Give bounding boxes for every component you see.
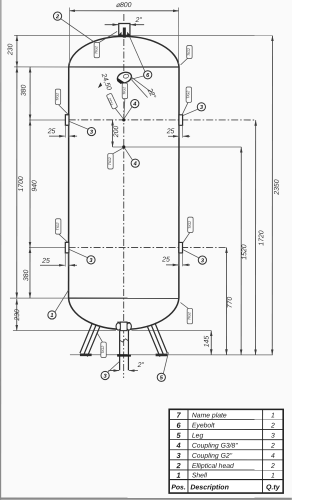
svg-text:25: 25 bbox=[41, 258, 50, 265]
angle lines 22deg bbox=[131, 80, 147, 98]
svg-text:Coupling G3/8": Coupling G3/8" bbox=[192, 443, 238, 450]
svg-text:25: 25 bbox=[161, 257, 170, 264]
bottom nozzle coupling at head apex bbox=[116, 322, 131, 331]
weld tag bottom-left leg bbox=[97, 333, 106, 357]
svg-text:2": 2" bbox=[137, 362, 145, 369]
coupling stub upper-right bbox=[179, 115, 183, 126]
balloon 3 lower-left coupling bbox=[69, 249, 95, 264]
svg-text:4: 4 bbox=[176, 441, 181, 450]
pipe break squiggle bbox=[120, 339, 129, 342]
svg-text:Coupling G2": Coupling G2" bbox=[192, 453, 233, 460]
shell left wall bbox=[68, 67, 70, 298]
dim 1520 bbox=[240, 147, 242, 355]
svg-text:230: 230 bbox=[14, 309, 21, 322]
balloon 4 lower junction bbox=[125, 148, 140, 167]
extension line bottom reference (y=354.8) bbox=[70, 354, 273, 356]
balloon 6 eyebolt bbox=[144, 71, 152, 79]
weld tag lower-right coupling bbox=[183, 217, 193, 243]
svg-text:⌀800: ⌀800 bbox=[116, 2, 132, 9]
dim chain A: 230 top bbox=[16, 35, 18, 66]
dim chain A: 1700 bbox=[16, 67, 18, 298]
dim 2350 bbox=[271, 36, 273, 355]
table header row bbox=[171, 483, 280, 491]
table row 2 elliptical head bbox=[176, 461, 275, 470]
weld tag above upper junction (centerline) bbox=[122, 83, 127, 117]
svg-text:940: 940 bbox=[32, 180, 39, 192]
table row 4 coupling G3/8 bbox=[176, 441, 275, 450]
eyebolt leader to balloon 6 bbox=[132, 76, 145, 79]
svg-text:TIG2: TIG2 bbox=[187, 312, 191, 320]
svg-text:2: 2 bbox=[270, 443, 275, 450]
svg-text:Q.ty: Q.ty bbox=[266, 484, 281, 491]
dim chain A: 230 bottom bbox=[16, 299, 18, 331]
svg-text:Eyebolt: Eyebolt bbox=[192, 422, 216, 429]
dim chain B: 380 top bbox=[29, 67, 31, 120]
svg-text:TIG2: TIG2 bbox=[101, 346, 105, 354]
dim chain B: 380 bottom bbox=[29, 247, 31, 298]
svg-text:TIG2: TIG2 bbox=[56, 222, 60, 230]
svg-text:1700: 1700 bbox=[18, 176, 25, 192]
svg-text:200: 200 bbox=[113, 126, 120, 139]
svg-text:1: 1 bbox=[271, 412, 275, 419]
elliptical head top bbox=[69, 36, 179, 67]
centerline horizontal dash-dot lower bbox=[69, 246, 227, 248]
balloon 2 top head bbox=[53, 12, 93, 42]
svg-text:2: 2 bbox=[270, 463, 275, 470]
dim 25 lower-right bbox=[161, 253, 190, 266]
svg-text:2": 2" bbox=[134, 17, 142, 24]
weld seam bottom bbox=[69, 297, 179, 299]
weld tag upper-left coupling bbox=[55, 89, 68, 114]
leg left foot bbox=[80, 354, 92, 357]
centerline vertical dash-dot bbox=[123, 14, 125, 378]
svg-text:24,50: 24,50 bbox=[99, 72, 112, 92]
leader top nozzle to balloon 6 bbox=[130, 37, 145, 72]
weld tag near top nozzle bbox=[94, 31, 117, 57]
extension line upper nozzle level left solid bbox=[29, 119, 65, 121]
node junction upper on centerline bbox=[122, 118, 125, 121]
svg-text:TIG2: TIG2 bbox=[55, 93, 59, 101]
dim 25 lower-left bbox=[40, 253, 77, 267]
dim 200 mid bbox=[112, 120, 114, 147]
centerline horizontal dash-dot upper bbox=[69, 119, 256, 121]
svg-text:1520: 1520 bbox=[241, 244, 248, 260]
svg-text:Elliptical head: Elliptical head bbox=[192, 463, 234, 470]
dim 1720 bbox=[255, 120, 257, 355]
leg right foot bbox=[156, 354, 168, 357]
extension line mid (y=147) to 1520 dim bbox=[113, 146, 242, 148]
dim 145 right bbox=[210, 331, 212, 355]
weld tag below lower junction bbox=[108, 148, 123, 169]
extension line bottom head apex left (y=330) bbox=[13, 330, 116, 332]
balloon 3 bottom coupling bbox=[101, 361, 119, 379]
dim 25 upper-right bbox=[166, 125, 190, 137]
leg right bbox=[148, 323, 168, 357]
table row 5 leg bbox=[177, 431, 275, 440]
coupling stub lower-left bbox=[65, 242, 69, 253]
svg-text:380: 380 bbox=[21, 85, 28, 97]
svg-text:Name plate: Name plate bbox=[192, 412, 227, 419]
coupling stub upper-left bbox=[65, 115, 69, 126]
top nozzle coupling 2in bbox=[119, 23, 130, 35]
extension line top seam (y=67) bbox=[14, 66, 69, 68]
table row 6 eyebolt bbox=[177, 421, 275, 430]
svg-text:TIG2: TIG2 bbox=[122, 87, 126, 95]
small arrow of 24,50 bbox=[98, 82, 102, 88]
balloon 3 lower-right coupling bbox=[183, 250, 207, 265]
page bottom edge bbox=[0, 498, 292, 500]
bottom pipe bbox=[119, 330, 121, 370]
page left edge bbox=[0, 0, 2, 500]
svg-text:230: 230 bbox=[7, 44, 14, 57]
dim 770 bbox=[225, 248, 227, 355]
svg-text:3: 3 bbox=[271, 433, 275, 440]
svg-text:4: 4 bbox=[271, 453, 275, 460]
weld tag lower-left coupling bbox=[56, 219, 69, 243]
eyebolt bbox=[116, 71, 133, 85]
svg-text:2: 2 bbox=[176, 461, 182, 470]
weld tag diagonal left of upper junction bbox=[106, 93, 123, 118]
svg-text:TIG2: TIG2 bbox=[187, 48, 191, 56]
svg-text:TIG2: TIG2 bbox=[186, 91, 190, 99]
extension line lower nozzle level left solid bbox=[29, 246, 65, 248]
svg-text:1: 1 bbox=[271, 472, 275, 479]
svg-text:770: 770 bbox=[227, 297, 234, 309]
svg-text:1: 1 bbox=[50, 313, 53, 319]
svg-text:2: 2 bbox=[270, 422, 275, 429]
dim chain B: 940 bbox=[29, 120, 31, 247]
svg-text:TIG2: TIG2 bbox=[94, 46, 98, 54]
balloon 5 leg bbox=[157, 353, 168, 382]
svg-text:Shell: Shell bbox=[192, 472, 208, 479]
weld tag bottom-right head bbox=[180, 303, 192, 324]
svg-text:25: 25 bbox=[47, 128, 56, 135]
svg-text:Leg: Leg bbox=[192, 433, 204, 440]
balloon 4 upper junction bbox=[125, 99, 139, 117]
svg-text:TIG2: TIG2 bbox=[108, 157, 112, 165]
elliptical head bottom bbox=[69, 298, 179, 329]
svg-text:1: 1 bbox=[176, 471, 180, 480]
svg-text:380: 380 bbox=[23, 270, 30, 282]
svg-text:Description: Description bbox=[190, 483, 229, 491]
balloon 3 upper-right coupling bbox=[183, 103, 206, 116]
svg-text:TIG2: TIG2 bbox=[188, 221, 192, 229]
svg-text:25: 25 bbox=[166, 128, 175, 135]
extension line bottom seam (y=298.2) bbox=[10, 297, 69, 299]
extension line top (y=35.5) bbox=[14, 34, 272, 36]
svg-text:145: 145 bbox=[204, 336, 211, 348]
table row 3 coupling G2 bbox=[177, 451, 275, 460]
parts table bbox=[169, 409, 283, 493]
dim 25 upper-left bbox=[47, 125, 77, 137]
weld seam top bbox=[69, 66, 179, 68]
node junction lower on centerline bbox=[122, 145, 125, 148]
weld tag top-right head seam bbox=[181, 46, 193, 65]
balloon 3 upper-left coupling bbox=[69, 121, 95, 135]
weld tag upper-right coupling bbox=[182, 87, 191, 114]
table row 1 shell bbox=[176, 471, 274, 480]
shell right wall bbox=[178, 67, 180, 298]
extension line bottom head apex right to 145 dim bbox=[131, 330, 211, 332]
leg left bbox=[80, 323, 100, 357]
balloon 1 shell bbox=[48, 290, 69, 319]
table row 7 name plate bbox=[177, 411, 275, 420]
coupling stub lower-right bbox=[179, 242, 183, 253]
svg-text:Pos.: Pos. bbox=[171, 484, 185, 491]
svg-text:1720: 1720 bbox=[258, 230, 265, 246]
pipe collar bbox=[117, 354, 131, 356]
svg-text:2350: 2350 bbox=[274, 179, 281, 196]
